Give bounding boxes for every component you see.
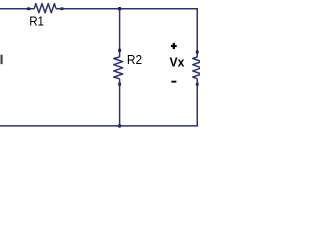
label plus sign (polarity +) [171, 43, 177, 49]
resistor R1 (horizontal zigzag) [34, 4, 56, 13]
svg-text:Vx: Vx [170, 54, 186, 69]
node: bottom T-junction dot [118, 124, 122, 128]
node: R1 left pin dot [27, 7, 31, 10]
wire: bottom horizontal from left edge to bottom-right corner [0, 125, 198, 127]
node: right resistor bottom pin dot [196, 82, 199, 86]
cropped source element sliver at left edge [1, 55, 3, 64]
svg-text:R1: R1 [29, 14, 44, 28]
wire: R2 bottom lead down to bottom wire [119, 79, 121, 126]
svg-text:R2: R2 [127, 52, 142, 67]
node: right resistor top pin dot [196, 50, 199, 54]
wire: R2 top lead (junction down to R2) [119, 9, 121, 57]
node: R2 bottom pin dot [118, 82, 121, 86]
wire: right side vertical from right resistor to bottom-right corner [196, 79, 198, 126]
node: R2 top pin dot [118, 48, 121, 52]
label minus sign (polarity -) [171, 81, 176, 83]
wire: top-left horizontal segment from left edge to R1 [0, 8, 34, 10]
node: top T-junction dot [118, 7, 122, 11]
node: R1 right pin dot [60, 7, 64, 10]
resistor R2 (vertical zigzag) [114, 57, 123, 79]
wire: top horizontal segment from R1 to top-right corner [56, 9, 197, 57]
resistor (right, partially cropped at edge) [193, 57, 202, 79]
